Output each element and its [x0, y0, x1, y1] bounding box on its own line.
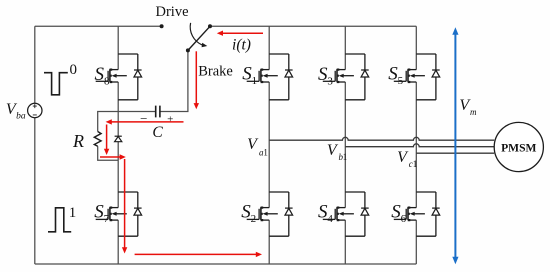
svg-text:1: 1: [69, 205, 77, 221]
capacitor C: [156, 106, 160, 118]
svg-text:Brake: Brake: [198, 63, 233, 79]
wire phase b output (Vb1 line with hop over leg c): [345, 144, 494, 147]
transistor S7 (MOSFET): [96, 192, 138, 236]
junction dot switch pole (brake): [186, 48, 190, 52]
wire leg S8/S7 vertical segments: [117, 26, 119, 264]
current arrow brake branch (down): [195, 51, 197, 104]
wire bottom rail: [35, 263, 417, 265]
transistor S1 (MOSFET): [247, 54, 289, 100]
svg-text:1: 1: [413, 159, 418, 169]
wire left rail (battery branch): [34, 26, 36, 264]
current arrow i(t) into bridge (top): [222, 32, 263, 34]
svg-text:6: 6: [401, 213, 407, 225]
wire phase a output (Va1 line with hops over legs b,c): [269, 137, 494, 140]
current arrow through S7 (down): [124, 159, 126, 248]
svg-text:0: 0: [70, 62, 78, 78]
transistor S8 (MOSFET): [96, 54, 138, 100]
svg-text:1: 1: [252, 75, 258, 87]
diode D1 (antiparallel of S1): [285, 70, 293, 77]
diode D7 (antiparallel of S7): [134, 208, 142, 215]
svg-text:4: 4: [327, 213, 333, 225]
diode D4 (antiparallel of S4): [361, 208, 369, 215]
wire top rail left segment (to Drive contact): [35, 25, 162, 27]
svg-text:m: m: [470, 107, 477, 117]
transistor S3 (MOSFET): [323, 54, 365, 100]
svg-text:7: 7: [104, 213, 110, 225]
current arrow along bottom rail (right): [135, 253, 257, 255]
current arrow through R (down): [106, 125, 108, 150]
svg-text:i(t): i(t): [232, 36, 251, 53]
resistor R: [94, 132, 101, 147]
junction dot switch top-right contact: [208, 24, 212, 28]
diode D2 (antiparallel of S2): [285, 208, 293, 215]
diode D6 (antiparallel of S6): [432, 208, 440, 215]
diode D (series diode on brake leg): [115, 136, 122, 142]
transistor S2 (MOSFET): [247, 192, 289, 236]
switch motion arc with arrowhead: [190, 23, 202, 45]
switch (Drive/Brake selector) blade: [188, 26, 210, 50]
waveform symbol 0 (notch pulse): [44, 73, 68, 95]
wire phase c output (Vc1 line): [416, 152, 494, 154]
svg-text:8: 8: [104, 75, 110, 87]
diode D8 (antiparallel of S8): [134, 70, 142, 77]
wire leg S5/S6 vertical segments: [415, 26, 417, 264]
wire leg S3/S4 vertical segments: [344, 26, 346, 264]
svg-text:−: −: [140, 111, 147, 126]
motor PMSM: [494, 122, 543, 171]
wire capacitor left lead to R branch: [98, 112, 156, 132]
svg-text:Drive: Drive: [155, 4, 188, 20]
diode D5 (antiparallel of S5): [432, 70, 440, 77]
arrow Vm (blue double-headed): [454, 34, 456, 258]
svg-text:2: 2: [251, 213, 257, 225]
wire brake branch (switch pole down to capacitor): [160, 50, 188, 111]
svg-text:3: 3: [327, 75, 333, 87]
wire leg S1/S2 vertical segments: [268, 26, 270, 264]
wire top rail right segment (switch to bridge): [210, 25, 416, 27]
wire R branch bottom to leg: [98, 146, 119, 160]
svg-text:1: 1: [343, 152, 348, 162]
svg-text:+: +: [167, 114, 173, 126]
diode D3 (antiparallel of S3): [361, 70, 369, 77]
svg-text:PMSM: PMSM: [501, 141, 536, 154]
current arrow through C (left): [111, 121, 184, 123]
svg-text:R: R: [72, 131, 84, 151]
svg-text:1: 1: [263, 147, 268, 157]
current arrow into leg (right): [100, 156, 121, 158]
svg-text:ba: ba: [16, 112, 26, 122]
waveform symbol 1 (positive pulse): [48, 208, 71, 232]
junction dot Drive contact: [160, 24, 164, 28]
svg-text:C: C: [152, 124, 163, 141]
svg-text:5: 5: [398, 75, 404, 87]
transistor S5 (MOSFET): [394, 54, 436, 100]
transistor S4 (MOSFET): [323, 192, 365, 236]
voltage source Vba (battery circle): [28, 103, 42, 117]
transistor S6 (MOSFET): [394, 192, 436, 236]
